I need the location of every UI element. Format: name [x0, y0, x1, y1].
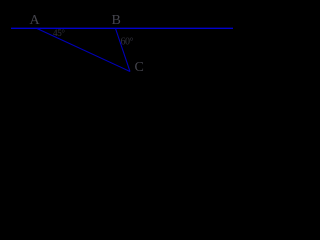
svg-text:45°: 45°	[53, 28, 65, 38]
svg-text:C: C	[135, 60, 144, 75]
svg-text:A: A	[30, 13, 41, 28]
horizontal line through A and B	[11, 27, 233, 29]
segment BC	[116, 29, 131, 72]
svg-text:B: B	[112, 13, 121, 28]
segment AC	[37, 29, 130, 72]
svg-text:60°: 60°	[121, 37, 134, 48]
